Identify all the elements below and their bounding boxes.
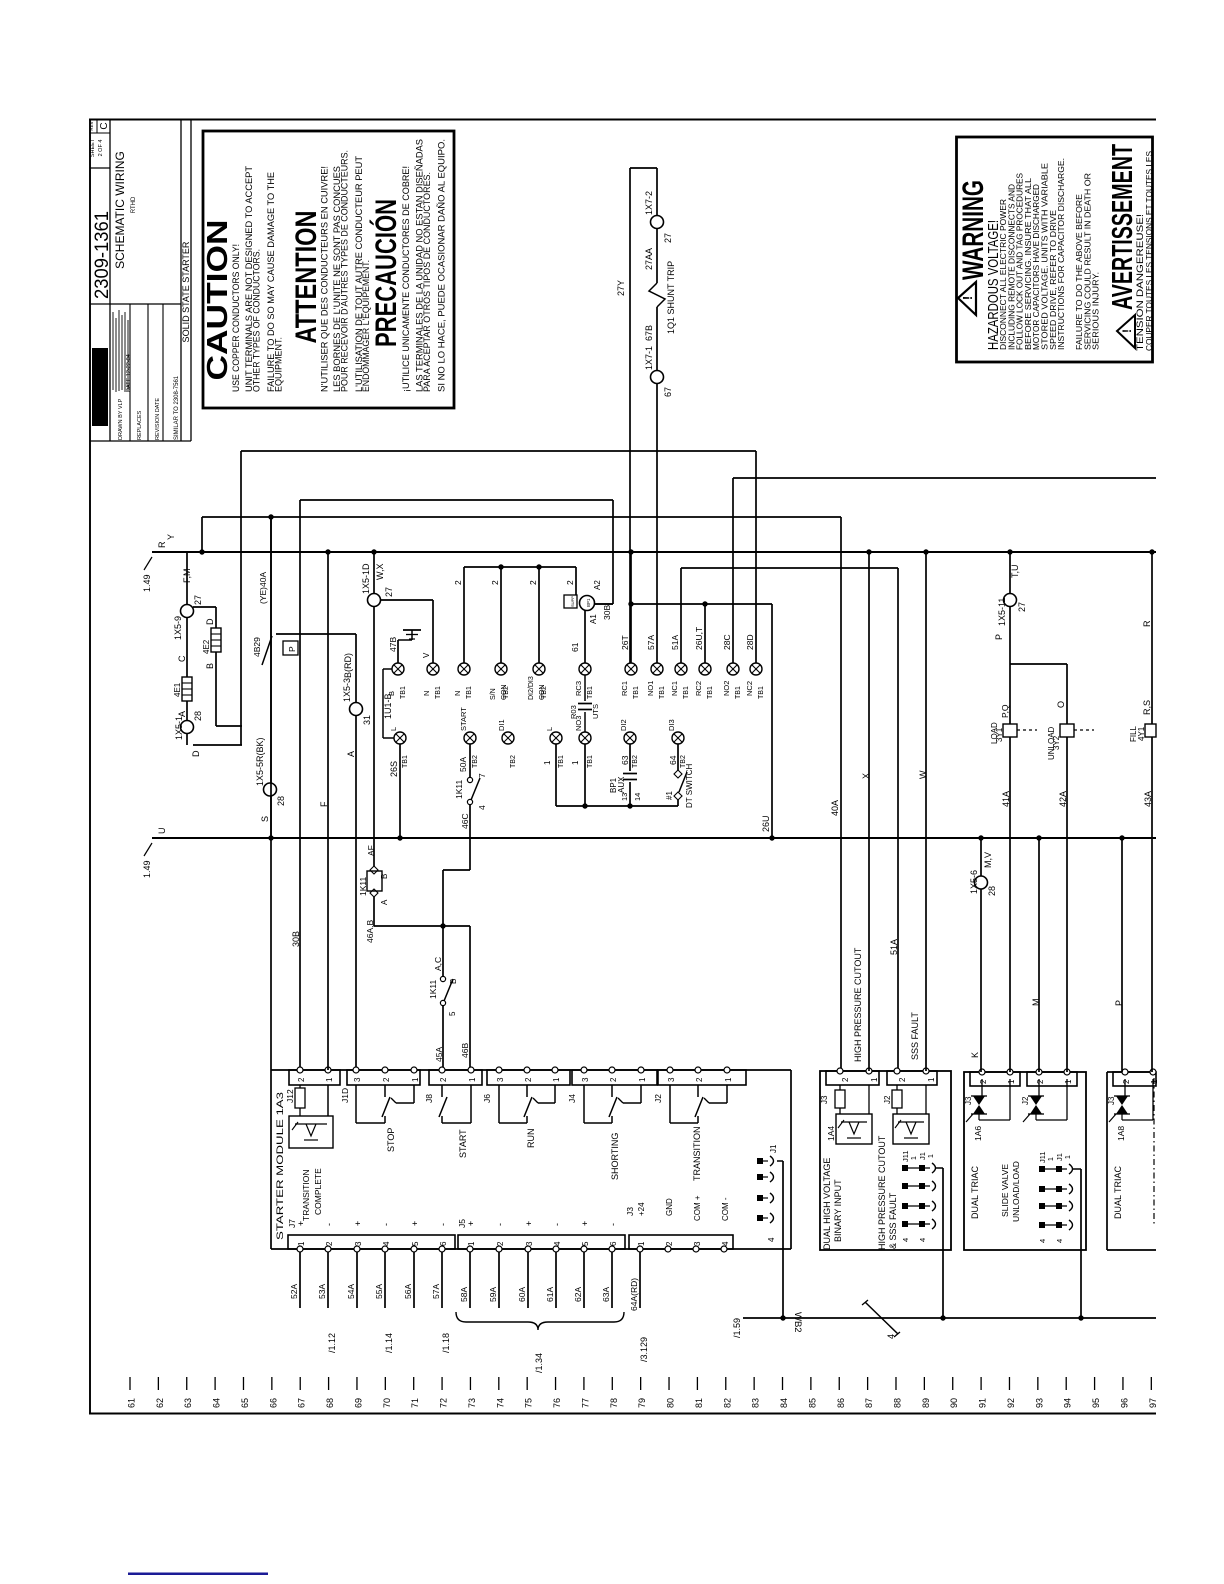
svg-text:D: D xyxy=(205,618,215,625)
svg-text:M: M xyxy=(1031,999,1041,1007)
svg-text:64: 64 xyxy=(212,1398,222,1408)
svg-text:J2: J2 xyxy=(653,1094,663,1103)
svg-text:TRANSITION: TRANSITION xyxy=(692,1126,702,1181)
coil LOAD 3Y1 xyxy=(1003,724,1017,737)
connector J3 with triac xyxy=(970,1072,1020,1086)
wire 1A6 J1 out xyxy=(1072,1168,1081,1170)
svg-text:J6: J6 xyxy=(482,1094,492,1103)
svg-text:1: 1 xyxy=(1048,1157,1055,1161)
breaker 1Q1 xyxy=(649,283,665,307)
wire 26T to RC1 xyxy=(630,552,632,663)
svg-text:64: 64 xyxy=(668,755,678,765)
svg-text:1: 1 xyxy=(467,1241,476,1246)
connector J8 xyxy=(429,1070,482,1085)
svg-text:RC1: RC1 xyxy=(620,681,629,696)
coil FILL 4Y1 xyxy=(1145,724,1156,737)
svg-text:V: V xyxy=(422,652,431,658)
wire 40A to 1A4 J3-2 xyxy=(840,517,842,1071)
svg-text:+: + xyxy=(410,1221,420,1226)
title block grid xyxy=(109,119,111,441)
svg-text:P: P xyxy=(287,646,297,652)
svg-text:A1: A1 xyxy=(589,614,598,624)
title: company text line xyxy=(112,312,114,390)
svg-text:5: 5 xyxy=(581,1241,590,1246)
svg-text:47B: 47B xyxy=(388,637,398,652)
svg-text:J2: J2 xyxy=(1021,1096,1030,1105)
svg-text:+: + xyxy=(524,1221,534,1226)
svg-text:P: P xyxy=(1114,1000,1124,1006)
warning triangle 2 xyxy=(1117,315,1135,348)
terminal RC2 TB1 row1 xyxy=(699,663,711,675)
svg-text:59A: 59A xyxy=(488,1287,498,1302)
wire 51A to NC1 xyxy=(680,568,682,663)
svg-text:72: 72 xyxy=(439,1398,449,1408)
svg-text:TB1: TB1 xyxy=(659,686,666,699)
svg-text:¡UTILICE UNICAMENTE CONDUCTORE: ¡UTILICE UNICAMENTE CONDUCTORES DE COBRE… xyxy=(401,166,412,392)
svg-text:/1.12: /1.12 xyxy=(327,1333,337,1353)
opto TRANSITION COMPLETE xyxy=(289,1116,333,1148)
svg-text:42A: 42A xyxy=(1058,791,1068,807)
svg-text:1X5-3: 1X5-3 xyxy=(342,678,352,702)
svg-text:(YE)40A: (YE)40A xyxy=(258,572,268,604)
title: company text line xyxy=(124,312,126,392)
connector J6 xyxy=(487,1070,570,1085)
wire stub to BP1 xyxy=(594,603,613,605)
module 1U1-B left edge xyxy=(382,669,384,738)
wire 27 branch xyxy=(380,599,433,601)
svg-text:65: 65 xyxy=(240,1398,250,1408)
contact 1K11 (50A/46C) xyxy=(469,744,471,777)
svg-text:14: 14 xyxy=(633,793,642,801)
sheet border frame xyxy=(89,119,91,1414)
svg-text:2: 2 xyxy=(1036,1079,1045,1084)
terminal DI1 TB2 row2 xyxy=(502,732,514,744)
svg-text:-: - xyxy=(438,1223,448,1226)
svg-text:45A: 45A xyxy=(434,1047,444,1062)
aux device BP1 / SUPP xyxy=(564,595,577,608)
svg-text:27: 27 xyxy=(1017,602,1027,612)
svg-text:B: B xyxy=(380,874,389,879)
switch DT SWITCH xyxy=(677,744,679,770)
svg-text:56A: 56A xyxy=(403,1284,413,1299)
svg-text:54A: 54A xyxy=(346,1284,356,1299)
svg-text:SLIDE VALVE: SLIDE VALVE xyxy=(1000,1164,1010,1217)
svg-text:87: 87 xyxy=(864,1398,874,1408)
svg-text:J11: J11 xyxy=(1038,1151,1047,1163)
svg-text:1: 1 xyxy=(552,1077,561,1082)
terminal 1X7-1 xyxy=(651,371,664,384)
svg-text:TB2: TB2 xyxy=(503,686,510,699)
svg-text:J5: J5 xyxy=(457,1219,467,1228)
terminal DI3 TB2 row2 xyxy=(672,732,684,744)
svg-text:-: - xyxy=(381,1223,391,1226)
svg-text:T,U: T,U xyxy=(1010,565,1020,579)
svg-text:1X5-9: 1X5-9 xyxy=(173,616,183,640)
svg-text:HIGH PRESSURE CUTOUT: HIGH PRESSURE CUTOUT xyxy=(877,1135,887,1250)
svg-text:J1: J1 xyxy=(918,1152,927,1160)
svg-text:4: 4 xyxy=(886,1334,896,1339)
svg-text:COM +: COM + xyxy=(693,1195,702,1221)
wire 46A,B leg xyxy=(373,897,375,926)
svg-text:3: 3 xyxy=(581,1077,590,1082)
svg-text:2: 2 xyxy=(325,1241,334,1246)
svg-text:-: - xyxy=(324,1223,334,1226)
terminal 1X5-1 xyxy=(181,721,194,734)
svg-text:40A: 40A xyxy=(830,800,840,816)
disconnect slash 4 xyxy=(865,1302,898,1334)
svg-text:J3: J3 xyxy=(820,1095,829,1104)
svg-text:2: 2 xyxy=(382,1077,391,1082)
svg-text:TB1: TB1 xyxy=(707,686,714,699)
svg-text:67B: 67B xyxy=(644,325,654,341)
svg-text:N'UTILISER QUE DES CONDUCTEURS: N'UTILISER QUE DES CONDUCTEURS EN CUIVRE… xyxy=(320,166,331,392)
svg-text:O: O xyxy=(1056,701,1066,708)
svg-text:1X5-1: 1X5-1 xyxy=(174,716,184,740)
terminal 1X5-5 xyxy=(264,783,277,796)
svg-text:USE COPPER CONDUCTORS ONLY!: USE COPPER CONDUCTORS ONLY! xyxy=(231,244,242,392)
svg-text:J2: J2 xyxy=(883,1095,892,1104)
bus wire 28C horizontal xyxy=(733,477,1156,479)
svg-text:30B: 30B xyxy=(602,605,612,620)
svg-text:63A: 63A xyxy=(601,1287,611,1302)
svg-text:95: 95 xyxy=(1091,1398,1101,1408)
svg-text:SIMILAR TO 2308-7561: SIMILAR TO 2308-7561 xyxy=(174,375,180,440)
svg-text:/1.18: /1.18 xyxy=(441,1333,451,1353)
svg-text:J1: J1 xyxy=(769,1144,778,1153)
svg-text:A: A xyxy=(346,751,356,757)
svg-text:1: 1 xyxy=(911,1156,918,1160)
svg-text:27: 27 xyxy=(663,233,673,243)
svg-text:DI2: DI2 xyxy=(619,719,628,731)
svg-text:31: 31 xyxy=(362,715,372,725)
svg-text:2: 2 xyxy=(528,580,538,585)
svg-text:K: K xyxy=(970,1052,980,1058)
terminal DI2/DI3 TB2 row1 xyxy=(533,663,545,675)
svg-text:4Y1: 4Y1 xyxy=(1137,726,1146,741)
wire from module J1 xyxy=(777,1160,783,1162)
pin header 1A6 J11/J1 xyxy=(1039,1166,1045,1172)
svg-text:CAUTION: CAUTION xyxy=(202,220,234,381)
svg-text:1: 1 xyxy=(1064,1079,1073,1084)
svg-text:UTS: UTS xyxy=(591,704,600,719)
wire 45A upper xyxy=(442,870,444,976)
svg-text:BP1: BP1 xyxy=(586,598,591,607)
wire 1 right xyxy=(584,744,586,806)
contact 1K11 (A,C) xyxy=(440,976,445,981)
svg-text:46C: 46C xyxy=(460,813,470,829)
svg-text:F,M: F,M xyxy=(182,569,192,584)
svg-text:W: W xyxy=(918,770,928,779)
resistor + opto block xyxy=(835,1090,845,1108)
svg-text:1K11: 1K11 xyxy=(358,877,368,896)
svg-text:DT SWITCH: DT SWITCH xyxy=(685,763,694,808)
svg-text:SSS FAULT: SSS FAULT xyxy=(910,1012,920,1060)
svg-text:-: - xyxy=(495,1223,505,1226)
wire F to J12-1 xyxy=(327,552,329,1070)
svg-text:1: 1 xyxy=(724,1077,733,1082)
svg-text:REVISION DATE: REVISION DATE xyxy=(155,398,161,440)
wire M xyxy=(1038,838,1040,1072)
switch START xyxy=(441,1085,443,1097)
svg-text:26T: 26T xyxy=(620,635,630,650)
svg-text:TB1: TB1 xyxy=(466,686,473,699)
svg-text:1: 1 xyxy=(543,760,552,765)
svg-text:SERIOUS INJURY.: SERIOUS INJURY. xyxy=(1092,272,1101,350)
svg-text:1K11: 1K11 xyxy=(428,980,438,999)
svg-text:COM -: COM - xyxy=(721,1197,730,1221)
svg-text:W,X: W,X xyxy=(375,563,385,580)
triac symbol xyxy=(1124,1079,1126,1096)
svg-text:J7: J7 xyxy=(287,1219,297,1228)
capacitor R03/UTS xyxy=(584,675,586,701)
svg-text:92: 92 xyxy=(1006,1398,1016,1408)
svg-text:INSTRUCTIONS FOR CAPACITOR DIS: INSTRUCTIONS FOR CAPACITOR DISCHARGE. xyxy=(1057,158,1066,350)
svg-text:STOP: STOP xyxy=(386,1128,396,1152)
svg-text:67: 67 xyxy=(297,1398,307,1408)
wire 46B to J8-1 xyxy=(469,926,471,1070)
terminal NC2 TB1 row1 xyxy=(750,663,762,675)
svg-text:1: 1 xyxy=(411,1077,420,1082)
svg-text:28: 28 xyxy=(193,711,203,721)
ground symbol xyxy=(398,639,412,641)
svg-text:+24: +24 xyxy=(637,1202,646,1216)
terminal L TB1 row2 xyxy=(550,732,562,744)
svg-text:2: 2 xyxy=(496,1241,505,1246)
svg-text:RC2: RC2 xyxy=(694,681,703,696)
switch TRANSITION xyxy=(669,1085,671,1123)
svg-text:7: 7 xyxy=(477,773,487,778)
wire common below xyxy=(556,805,678,807)
bus wire 28D horizontal xyxy=(241,450,756,452)
svg-text:DRAWN BY VLP: DRAWN BY VLP xyxy=(118,398,124,440)
svg-text:A2: A2 xyxy=(593,580,602,590)
svg-text:4: 4 xyxy=(1055,1239,1064,1243)
svg-text:/1.59: /1.59 xyxy=(732,1318,742,1338)
svg-text:POUR RECEVOIR D'AUTRES TYPES D: POUR RECEVOIR D'AUTRES TYPES DE CONDUCTE… xyxy=(340,150,351,392)
junction dots xyxy=(199,549,204,554)
svg-text:!: ! xyxy=(1120,329,1134,333)
J3 wire drop 64A(RD) xyxy=(639,1252,641,1308)
svg-text:A: A xyxy=(380,899,389,905)
svg-text:AF: AF xyxy=(366,845,376,856)
wire 27 to 4E2 xyxy=(193,606,216,608)
svg-text:61: 61 xyxy=(127,1398,137,1408)
svg-text:NO2: NO2 xyxy=(722,681,731,696)
wire 1 left xyxy=(555,744,557,806)
svg-text:+: + xyxy=(353,1221,363,1226)
svg-text:B(RD): B(RD) xyxy=(343,653,353,678)
svg-text:1X5-5: 1X5-5 xyxy=(255,762,265,786)
svg-text:85: 85 xyxy=(807,1398,817,1408)
svg-text:-: - xyxy=(608,1223,618,1226)
svg-text:63: 63 xyxy=(620,755,630,765)
svg-text:RC3: RC3 xyxy=(574,681,583,696)
svg-text:78: 78 xyxy=(609,1398,619,1408)
svg-text:6: 6 xyxy=(439,1241,448,1246)
svg-text:TB1: TB1 xyxy=(633,686,640,699)
connector 1A4 J2 xyxy=(887,1071,937,1085)
svg-text:!: ! xyxy=(960,296,975,300)
svg-text:51A: 51A xyxy=(670,635,680,650)
svg-text:J4: J4 xyxy=(567,1094,577,1103)
svg-text:67: 67 xyxy=(663,387,673,397)
wire B horizontal xyxy=(216,725,242,727)
svg-text:PARA ACEPTAR OTROS TIPOS DE CO: PARA ACEPTAR OTROS TIPOS DE CONDUCTORES. xyxy=(422,172,433,392)
terminal 1X5-9 xyxy=(181,605,194,618)
title: company text line xyxy=(121,315,123,390)
svg-text:27Y: 27Y xyxy=(616,280,626,296)
svg-text:3: 3 xyxy=(354,1241,363,1246)
svg-text:R,S: R,S xyxy=(1142,700,1152,715)
svg-text:3: 3 xyxy=(353,1077,362,1082)
svg-text:90: 90 xyxy=(949,1398,959,1408)
svg-text:Y: Y xyxy=(166,534,176,540)
svg-text:J11: J11 xyxy=(901,1150,910,1162)
svg-text:3: 3 xyxy=(693,1241,702,1246)
svg-text:4: 4 xyxy=(553,1241,562,1246)
terminal START TB2 row2 xyxy=(464,732,476,744)
svg-text:C: C xyxy=(99,122,110,129)
svg-text:#1: #1 xyxy=(665,791,674,800)
svg-text:89: 89 xyxy=(921,1398,931,1408)
connector J1D xyxy=(347,1070,420,1085)
terminal B TB1 row1 xyxy=(392,663,404,675)
svg-text:4: 4 xyxy=(721,1241,730,1246)
svg-text:J1D: J1D xyxy=(340,1088,350,1103)
svg-text:4: 4 xyxy=(1038,1239,1047,1243)
svg-text:77: 77 xyxy=(580,1398,590,1408)
svg-text:41A: 41A xyxy=(1001,791,1011,807)
svg-text:30B: 30B xyxy=(291,931,301,947)
svg-text:4E1: 4E1 xyxy=(173,682,182,697)
svg-text:J3: J3 xyxy=(964,1096,973,1105)
svg-text:2: 2 xyxy=(695,1077,704,1082)
wire 42A branch xyxy=(1010,663,1067,665)
triac symbol xyxy=(1038,1079,1040,1096)
svg-text:TB2: TB2 xyxy=(472,755,479,768)
svg-text:+: + xyxy=(466,1221,476,1226)
svg-text:DUAL HIGH VOLTAGE: DUAL HIGH VOLTAGE xyxy=(822,1158,832,1250)
warning box border xyxy=(957,137,1153,362)
J7 wire drops 52A-57A xyxy=(299,1252,301,1308)
svg-text:1Q1 SHUNT TRIP: 1Q1 SHUNT TRIP xyxy=(666,261,676,334)
wire 30B to J12-2 xyxy=(299,500,301,1070)
svg-text:27: 27 xyxy=(193,595,203,605)
svg-text:68: 68 xyxy=(325,1398,335,1408)
title: company text line xyxy=(115,318,117,392)
wire D left leg xyxy=(240,451,242,745)
svg-text:93: 93 xyxy=(1034,1398,1044,1408)
svg-text:TRANSITION: TRANSITION xyxy=(301,1170,311,1221)
svg-text:46A,B: 46A,B xyxy=(365,920,375,943)
svg-text:RTHD: RTHD xyxy=(131,196,137,213)
svg-text:J3: J3 xyxy=(625,1207,635,1216)
wire 1A4 to WB2 xyxy=(942,1168,944,1318)
wire 26U xyxy=(771,604,773,838)
resistor + opto block xyxy=(892,1090,902,1108)
wire 27Y shunt-trip left leg xyxy=(629,168,631,663)
svg-text:TB2: TB2 xyxy=(632,755,639,768)
svg-text:63: 63 xyxy=(183,1398,193,1408)
slash 1.49 U xyxy=(144,843,152,856)
svg-text:2: 2 xyxy=(439,1077,448,1082)
svg-text:2 OF 4: 2 OF 4 xyxy=(98,140,104,157)
svg-text:DUAL TRIAC: DUAL TRIAC xyxy=(1113,1165,1123,1219)
svg-text:GND: GND xyxy=(665,1198,674,1216)
terminal 1X5-1D xyxy=(368,594,381,607)
wire 40A vertical with switch 4B29 xyxy=(270,517,272,783)
svg-text:R(BK): R(BK) xyxy=(255,737,265,762)
terminal 1X5-6 xyxy=(975,876,988,889)
svg-text:DI3: DI3 xyxy=(667,719,676,731)
svg-text:OTHER TYPES OF CONDUCTORS.: OTHER TYPES OF CONDUCTORS. xyxy=(252,249,263,392)
svg-text:SHEET: SHEET xyxy=(90,138,96,157)
svg-text:B: B xyxy=(205,663,215,669)
svg-text:DUAL TRIAC: DUAL TRIAC xyxy=(970,1165,980,1219)
svg-text:57A: 57A xyxy=(431,1284,441,1299)
svg-text:NO1: NO1 xyxy=(646,681,655,696)
wire WB2 xyxy=(743,1317,1156,1319)
terminal L TB1 row2 xyxy=(394,732,406,744)
svg-text:1A8: 1A8 xyxy=(1116,1126,1126,1141)
connector 1A4 J3 xyxy=(826,1071,879,1085)
wire 46C jog xyxy=(443,869,470,871)
svg-text:COUPER TOUTES LES TENSIONS ET: COUPER TOUTES LES TENSIONS ET TOUTES LES xyxy=(1145,151,1154,351)
svg-text:2: 2 xyxy=(524,1077,533,1082)
connector J4 xyxy=(572,1070,657,1085)
wire D horizontal xyxy=(193,744,242,746)
svg-text:4: 4 xyxy=(477,805,487,810)
svg-text:2: 2 xyxy=(979,1079,988,1084)
svg-text:DI2/DI3: DI2/DI3 xyxy=(528,676,535,700)
svg-text:P: P xyxy=(994,634,1004,640)
blue footer line xyxy=(128,1573,268,1576)
svg-text:1X5-11: 1X5-11 xyxy=(997,598,1007,626)
terminal DI2 TB2 row2 xyxy=(624,732,636,744)
connector J2 with triac xyxy=(1027,1072,1077,1086)
svg-text:4B29: 4B29 xyxy=(252,637,262,657)
svg-text:94: 94 xyxy=(1063,1398,1073,1408)
svg-text:RUN: RUN xyxy=(526,1129,536,1149)
svg-text:A,C: A,C xyxy=(433,957,443,971)
svg-text:74: 74 xyxy=(495,1398,505,1408)
brace for /1.34 xyxy=(456,1312,624,1330)
svg-text:EQUIPMENT.: EQUIPMENT. xyxy=(274,337,285,392)
svg-text:4: 4 xyxy=(901,1238,910,1242)
svg-text:-: - xyxy=(552,1223,562,1226)
connector J5 xyxy=(458,1235,625,1249)
svg-text:J3: J3 xyxy=(1107,1096,1116,1105)
svg-text:2: 2 xyxy=(453,580,463,585)
svg-text:L: L xyxy=(545,727,554,731)
warning triangle 1 xyxy=(958,282,976,315)
svg-text:1: 1 xyxy=(927,1077,936,1082)
svg-text:43A: 43A xyxy=(1143,791,1153,807)
connector J3 xyxy=(629,1235,733,1249)
wire shunt-trip right leg xyxy=(656,168,658,216)
svg-text:START: START xyxy=(459,707,468,731)
svg-text:81: 81 xyxy=(694,1398,704,1408)
svg-text:70: 70 xyxy=(382,1398,392,1408)
switch SHORTING xyxy=(583,1085,585,1123)
wire 45A to J8-2 xyxy=(442,1006,444,1070)
svg-text:66: 66 xyxy=(268,1398,278,1408)
terminal N TB1 row1 xyxy=(458,663,470,675)
terminal RC1 TB1 row1 xyxy=(625,663,637,675)
svg-text:86: 86 xyxy=(836,1398,846,1408)
svg-text:83: 83 xyxy=(751,1398,761,1408)
svg-text:3: 3 xyxy=(496,1077,505,1082)
